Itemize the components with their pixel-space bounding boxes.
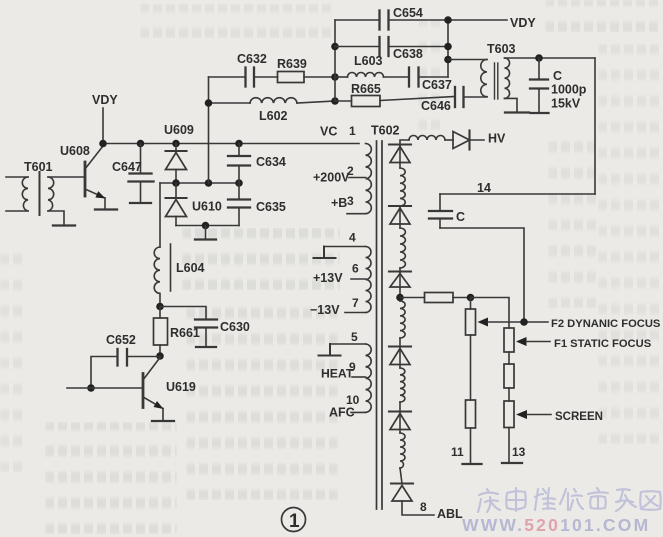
svg-text:C: C — [456, 210, 465, 224]
ground (T601) — [53, 224, 75, 226]
svg-text:T602: T602 — [371, 124, 400, 138]
svg-text:7: 7 — [352, 296, 359, 310]
svg-text:C630: C630 — [220, 320, 250, 334]
node +B pin 3 — [331, 194, 354, 210]
wire riser right (VDY to C637) — [447, 20, 449, 77]
transistor U608 — [60, 144, 106, 199]
svg-text:C: C — [553, 69, 562, 83]
svg-text:U609: U609 — [164, 123, 194, 137]
ground (C 1000p) — [531, 112, 549, 114]
resistor (focus feed) — [400, 293, 471, 303]
wire T601 secondary bottom to ground — [48, 211, 64, 225]
figure number circled 1 — [282, 508, 306, 533]
inductor L603 — [335, 54, 384, 77]
capacitor C 1000p 15kV — [530, 58, 587, 113]
transformer T601 — [6, 160, 54, 215]
wire L604 node to C630 — [160, 307, 206, 320]
winding W5 (chain) — [400, 433, 405, 468]
svg-text:ABL: ABL — [437, 507, 463, 521]
resistor R639 — [254, 57, 335, 83]
diode D1 (chain) — [389, 145, 411, 169]
svg-text:SCREEN: SCREEN — [555, 411, 603, 423]
svg-text:14: 14 — [477, 181, 491, 195]
diode D4 (chain) — [389, 338, 411, 368]
diode U609 — [164, 123, 194, 183]
wire T601 to U608 base — [48, 176, 84, 178]
capacitor C654 — [335, 6, 448, 30]
svg-text:C652: C652 — [106, 333, 136, 347]
svg-text:VDY: VDY — [510, 16, 536, 30]
node HEAT pin 9 — [321, 360, 356, 381]
node -13V pin 7 — [310, 296, 359, 317]
wire node B row — [176, 225, 239, 227]
wire U619 emitter to ground — [162, 409, 164, 421]
wire pin 14 line — [440, 181, 595, 195]
node VDY wire — [92, 93, 118, 144]
svg-text:T601: T601 — [24, 160, 53, 174]
capacitor C637 — [384, 68, 452, 93]
inductor L604 — [154, 244, 204, 307]
diode U610 — [166, 183, 222, 226]
T602 winding pins 4-6-7 — [324, 231, 371, 313]
ground (C647) — [130, 202, 151, 204]
watermark text — [462, 515, 650, 535]
transformer T602 labels — [320, 124, 400, 139]
svg-text:15kV: 15kV — [551, 97, 581, 111]
wire node B to F1 riser — [471, 298, 510, 329]
node pin 8 ABL — [402, 500, 463, 521]
wire T603 secondary top — [505, 57, 596, 59]
capacitor C632 — [209, 52, 267, 87]
diode D2 (chain) — [389, 206, 411, 228]
svg-text:6: 6 — [352, 262, 359, 276]
watermark calligraphy (imitated strokes) — [478, 488, 661, 512]
svg-text:+200V: +200V — [313, 171, 350, 185]
ground (T603) — [505, 111, 529, 113]
svg-text:F1 STATIC FOCUS: F1 STATIC FOCUS — [554, 338, 652, 350]
svg-text:U619: U619 — [166, 380, 196, 394]
wire F1 chain to ground — [509, 428, 526, 463]
capacitor C (focus) — [429, 194, 465, 228]
wire U608 emitter to ground — [104, 198, 106, 209]
wire main VC line — [103, 143, 359, 145]
bleed-through background texture — [0, 0, 663, 1]
svg-text:11: 11 — [451, 445, 464, 459]
svg-text:1000p: 1000p — [551, 83, 587, 97]
svg-text:C654: C654 — [393, 6, 423, 20]
winding W2 (chain) — [400, 228, 405, 268]
node VDY top right — [448, 16, 536, 30]
wire T603 secondary bottom to ground — [505, 98, 518, 112]
capacitor C652 — [91, 333, 160, 388]
wire left riser to node A — [208, 77, 210, 183]
capacitor C630 — [195, 320, 250, 347]
wire HV top row — [400, 140, 409, 145]
svg-text:1: 1 — [349, 124, 356, 138]
resistor R665 — [335, 82, 381, 107]
winding W1 (chain) — [400, 168, 405, 206]
node +13V pin 6 — [313, 262, 359, 286]
svg-text:R639: R639 — [277, 57, 307, 71]
T602 primary winding pins 1-2-3 — [347, 144, 371, 214]
svg-text:10: 10 — [346, 393, 360, 407]
wire to HV diode — [445, 139, 453, 141]
T602 core — [377, 141, 383, 509]
capacitor C646 — [380, 87, 487, 113]
node AFC pin 10 — [329, 393, 360, 420]
svg-text:3: 3 — [347, 194, 354, 208]
svg-text:+B: +B — [331, 196, 347, 210]
wire riser C654/R665 — [334, 20, 336, 101]
wire right riser to pin 14 — [594, 58, 596, 194]
svg-text:C638: C638 — [393, 47, 423, 61]
diode HV — [453, 131, 506, 150]
diode D3 (chain) — [389, 268, 411, 301]
diode D6 (chain) — [391, 468, 413, 501]
svg-text:9: 9 — [349, 360, 356, 374]
capacitor C635 — [228, 183, 286, 226]
transformer T603 — [448, 42, 516, 99]
wire U619 base — [67, 387, 143, 389]
resistor (below F2) — [451, 335, 476, 464]
svg-text:VDY: VDY — [92, 93, 118, 107]
wire node A row — [160, 182, 239, 184]
inductor L602 — [209, 98, 336, 123]
ground (pin 4) — [314, 247, 336, 259]
svg-text:L603: L603 — [354, 54, 383, 68]
T602 winding pins 5-9-10 — [330, 330, 371, 412]
node chain tap — [396, 294, 404, 302]
potentiometer F1 — [504, 328, 550, 352]
svg-text:U610: U610 — [192, 200, 222, 214]
svg-text:L604: L604 — [176, 261, 205, 275]
ground (U610/C635 row) — [195, 226, 216, 240]
ground (U619) — [152, 420, 174, 422]
svg-text:L602: L602 — [259, 109, 288, 123]
svg-text:C637: C637 — [422, 78, 452, 92]
svg-text:C635: C635 — [256, 200, 286, 214]
ground (F1 chain) — [502, 462, 522, 464]
svg-text:5: 5 — [351, 330, 358, 344]
svg-text:2: 2 — [347, 164, 354, 178]
transistor U619 — [143, 358, 196, 410]
svg-text:+13V: +13V — [313, 271, 343, 285]
capacitor C647 — [112, 144, 154, 203]
diode D5 (chain) — [389, 402, 411, 433]
svg-text:C647: C647 — [112, 160, 142, 174]
svg-text:U608: U608 — [60, 144, 90, 158]
svg-text:−13V: −13V — [310, 303, 340, 317]
inductor (HV row) — [409, 136, 445, 141]
svg-text:C634: C634 — [256, 155, 286, 169]
svg-text:4: 4 — [349, 231, 356, 245]
ground (pin 5) — [319, 344, 341, 356]
potentiometer SCREEN — [504, 401, 603, 428]
winding W3 (chain) — [400, 301, 405, 338]
svg-text:T603: T603 — [487, 42, 516, 56]
svg-text:13: 13 — [512, 445, 526, 459]
ground (U608 emitter) — [95, 208, 117, 210]
svg-text:8: 8 — [420, 500, 427, 514]
svg-text:F2 DYNANIC FOCUS: F2 DYNANIC FOCUS — [551, 318, 661, 330]
svg-text:HV: HV — [488, 132, 506, 146]
junction dots on main line — [99, 140, 243, 148]
wire branch to L604 — [159, 183, 161, 247]
capacitor C638 — [335, 37, 448, 61]
resistor (mid F1 chain) — [504, 352, 514, 401]
winding W4 (chain) — [400, 368, 405, 402]
svg-text:AFC: AFC — [329, 406, 355, 420]
svg-text:C632: C632 — [237, 52, 267, 66]
wire C to focus network — [440, 228, 524, 322]
svg-text:R665: R665 — [351, 82, 381, 96]
ground (F2 chain) — [463, 463, 482, 465]
ground (C630) — [196, 346, 216, 348]
capacitor C634 — [228, 144, 286, 184]
potentiometer F2 — [466, 298, 549, 336]
svg-text:VC: VC — [320, 125, 337, 139]
svg-text:WWW.520101.COM: WWW.520101.COM — [462, 515, 650, 535]
node +200V pin 2 — [313, 164, 354, 185]
resistor R661 — [154, 307, 200, 357]
svg-text:C646: C646 — [421, 99, 451, 113]
svg-text:1: 1 — [289, 511, 300, 532]
